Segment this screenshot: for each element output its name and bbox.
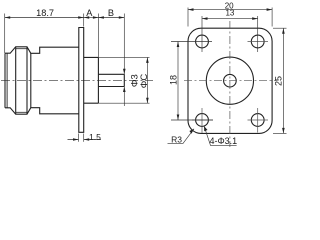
nut right face <box>30 53 32 107</box>
side view outline upper <box>5 47 79 54</box>
hole top-left <box>196 35 209 48</box>
front view flange plate <box>188 28 272 133</box>
side view outline lower <box>5 108 79 115</box>
front view center socket circle <box>224 74 237 87</box>
front view horizontal centerline <box>184 80 277 82</box>
label R3 with leader <box>168 129 195 144</box>
hole top-right <box>251 35 264 48</box>
hole bottom-right <box>251 114 264 127</box>
nut lip line <box>6 53 8 108</box>
dimension phi3 <box>123 69 126 92</box>
rear body side view <box>84 57 99 103</box>
svg-text:4-Φ3.1: 4-Φ3.1 <box>209 136 237 146</box>
dimension 20 <box>188 8 272 27</box>
dimension 25 <box>273 28 287 133</box>
svg-text:1.5: 1.5 <box>89 132 101 142</box>
dimension 18.7 <box>5 14 84 54</box>
svg-text:ΦC: ΦC <box>139 74 150 89</box>
dimension 1.5 flange thickness <box>68 134 102 142</box>
nut chamfer verticals <box>16 47 27 114</box>
side view centerline <box>1 79 153 81</box>
hole crosshairs <box>192 42 268 134</box>
svg-text:25: 25 <box>273 76 283 86</box>
dimension 13 <box>202 16 258 52</box>
front view vertical centerline <box>229 21 231 147</box>
nut chamfer top edge line <box>16 48 27 50</box>
svg-text:18: 18 <box>168 75 178 85</box>
flange side view <box>79 28 84 133</box>
dimension A <box>84 14 99 58</box>
dimension 18 <box>171 42 213 121</box>
label 4-phi3.1 with leader <box>204 126 237 145</box>
nut chamfer bottom edge line <box>16 111 27 113</box>
rear cylinder side view <box>98 74 124 86</box>
svg-text:18.7: 18.7 <box>36 8 54 18</box>
dimension phiC <box>98 57 149 103</box>
svg-text:A: A <box>86 8 93 18</box>
dimension B <box>98 14 124 107</box>
front view big circle <box>206 57 253 104</box>
svg-text:B: B <box>108 8 114 18</box>
svg-text:13: 13 <box>225 9 234 18</box>
hole bottom-left <box>196 114 209 127</box>
nut left face <box>4 53 6 108</box>
svg-text:R3: R3 <box>171 135 182 145</box>
